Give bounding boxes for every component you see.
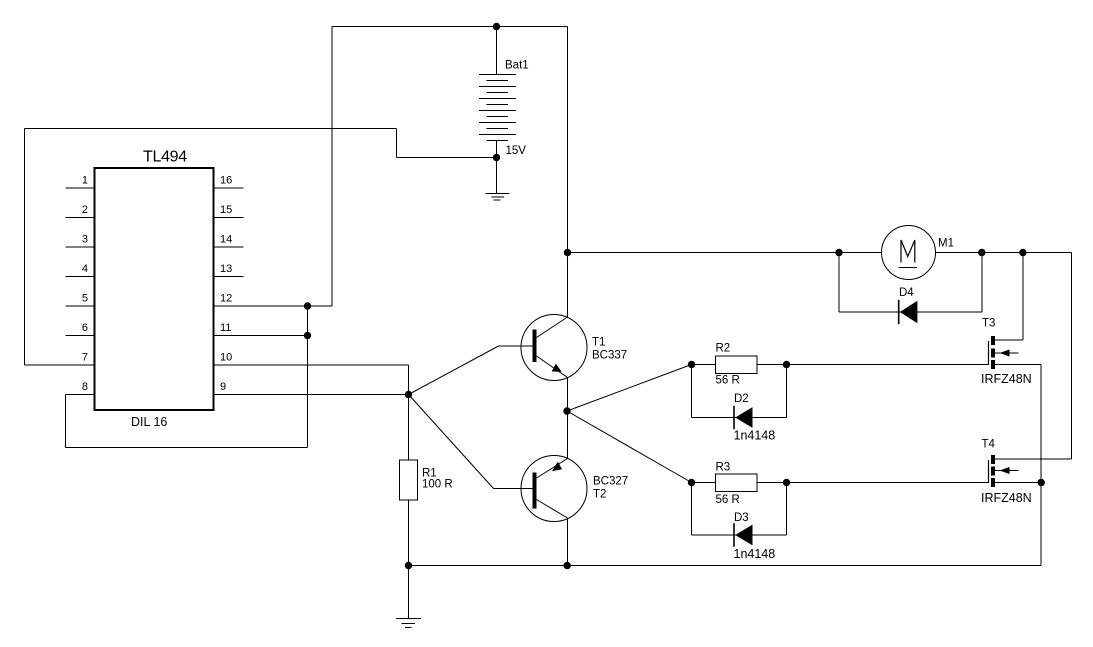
wire T4 source to ground bus: [1040, 483, 1042, 566]
wire R3 right to T4 gate: [757, 482, 989, 484]
svg-text:14: 14: [220, 234, 232, 246]
wire pin9 net: [214, 394, 409, 396]
wire motor right: [936, 252, 1072, 254]
wire R3 left: [692, 482, 716, 484]
wire T3 source drop: [1040, 365, 1042, 483]
wire pin10 drop: [408, 365, 410, 395]
node T2 collector ground junction: [564, 562, 571, 569]
diode D4: [899, 300, 918, 324]
wire pin8 stub: [66, 394, 95, 396]
svg-text:2: 2: [82, 204, 88, 216]
svg-text:IRFZ48N: IRFZ48N: [981, 372, 1032, 386]
svg-text:15: 15: [220, 204, 232, 216]
svg-text:10: 10: [220, 352, 232, 364]
node R2 right junction: [783, 361, 790, 368]
svg-text:D2: D2: [734, 393, 749, 405]
wire battery to ground: [496, 158, 498, 194]
pin 4 stub: [66, 276, 95, 278]
wire T4 source: [995, 482, 1041, 484]
wire ground bus: [409, 565, 1042, 567]
node D4 left junction: [835, 249, 842, 256]
svg-text:BC337: BC337: [592, 350, 627, 362]
svg-text:1: 1: [82, 175, 88, 187]
node base drive junction: [405, 391, 412, 398]
wire D3 net: [692, 534, 787, 536]
wire R1 top: [408, 395, 410, 461]
wire T3 drain stub: [995, 339, 1023, 341]
ground battery: [486, 194, 510, 201]
wire to T2 base diagonal: [409, 395, 494, 489]
wire to R2 net diagonal: [567, 365, 692, 412]
svg-text:16: 16: [220, 175, 232, 187]
wire right drop to T4 drain: [1071, 253, 1073, 460]
pin 3 stub: [66, 246, 95, 248]
wire bottom link: [66, 447, 308, 449]
node R2 left junction: [688, 361, 695, 368]
pin 1 stub: [66, 187, 95, 189]
node 15V junction: [493, 154, 500, 161]
resistor R1: [400, 460, 418, 500]
svg-text:R3: R3: [716, 462, 731, 474]
wire to R3 net diagonal: [567, 411, 692, 483]
wire left riser: [24, 129, 26, 366]
resistor R2: [716, 356, 758, 374]
wire pin7 to left riser: [25, 364, 95, 366]
svg-text:1n4148: 1n4148: [734, 547, 776, 561]
wire R1 bottom: [408, 501, 410, 566]
wire D2 left drop: [691, 365, 693, 418]
wire D4 right riser: [981, 253, 983, 313]
op-amp U1 TL494 body: [95, 168, 214, 410]
node R3 left junction: [688, 479, 695, 486]
pin 5 stub: [66, 305, 95, 307]
wire D4 left drop: [838, 253, 840, 313]
wire pin11 net: [214, 335, 308, 337]
battery Bat1 plates: [479, 75, 516, 141]
svg-text:M1: M1: [938, 238, 954, 250]
battery Bat1 top stub: [496, 27, 498, 75]
pin 15 stub: [214, 217, 244, 219]
wire T4 drain: [995, 458, 1072, 460]
pin 6 stub: [66, 335, 95, 337]
wire motor left: [568, 252, 882, 254]
node R1 ground junction: [405, 562, 412, 569]
wire T3 drain riser: [1022, 253, 1024, 341]
wire top-left bus: [25, 128, 397, 130]
svg-text:IRFZ48N: IRFZ48N: [981, 491, 1032, 505]
svg-text:D4: D4: [899, 287, 914, 299]
svg-text:T4: T4: [982, 439, 996, 451]
pin 13 stub: [214, 276, 244, 278]
node D4 right junction: [978, 249, 985, 256]
pin 2 stub: [66, 217, 95, 219]
svg-text:Bat1: Bat1: [505, 60, 529, 72]
svg-text:D3: D3: [734, 512, 749, 524]
svg-text:7: 7: [82, 352, 88, 364]
svg-text:3: 3: [82, 234, 88, 246]
battery Bat1 bottom stub: [496, 141, 498, 158]
svg-text:T1: T1: [592, 337, 605, 349]
wire bus x307: [307, 306, 309, 448]
wire pin12 riser: [331, 27, 333, 307]
node emitter junction: [563, 407, 570, 414]
svg-text:TL494: TL494: [143, 149, 187, 166]
svg-text:4: 4: [82, 263, 88, 275]
svg-text:56 R: 56 R: [716, 375, 740, 387]
svg-text:56 R: 56 R: [716, 494, 740, 506]
wire T1 base stub: [499, 345, 533, 347]
svg-text:BC327: BC327: [593, 476, 628, 488]
svg-text:13: 13: [220, 263, 232, 275]
transistor T1 BC337: [521, 315, 587, 381]
diode D3: [734, 523, 753, 547]
wire D2 right riser: [786, 365, 788, 418]
svg-text:6: 6: [82, 322, 88, 334]
wire pin12 net: [214, 305, 333, 307]
svg-text:9: 9: [220, 381, 226, 393]
wire to T1 base diagonal: [409, 346, 499, 395]
node collector-motor junction: [564, 249, 571, 256]
pin 16 stub: [214, 187, 244, 189]
diode D2: [734, 406, 753, 430]
wire to battery minus: [397, 157, 497, 159]
wire drop to 15V node: [396, 129, 398, 158]
wire emitter bus: [567, 378, 569, 459]
wire D3 left drop: [691, 483, 693, 536]
wire D3 right riser: [786, 483, 788, 536]
node T3 drain junction: [1019, 249, 1026, 256]
wire pin10 net: [214, 364, 409, 366]
svg-text:T2: T2: [593, 489, 606, 501]
wire R1 to ground: [408, 566, 410, 619]
wire T2 collector: [567, 518, 569, 566]
node pin11 junction: [304, 332, 311, 339]
wire D2 net: [692, 417, 787, 419]
motor M1: [882, 226, 936, 280]
svg-text:100 R: 100 R: [422, 479, 453, 491]
wire T1 collector bus: [567, 27, 569, 318]
svg-text:T3: T3: [982, 318, 995, 330]
transistor T3 IRFZ48N: [989, 336, 1019, 369]
pin 14 stub: [214, 246, 244, 248]
node pin12 junction: [304, 302, 311, 309]
transistor T4 IRFZ48N: [989, 455, 1019, 487]
resistor R3: [716, 474, 758, 492]
wire R2 left: [692, 364, 716, 366]
node R3 right junction: [783, 479, 790, 486]
wire top supply bus: [332, 26, 568, 28]
wire R2 right to T3 gate: [757, 364, 989, 366]
ground R1: [396, 619, 421, 628]
svg-text:R2: R2: [716, 343, 731, 355]
wire pin8 drop: [65, 395, 67, 448]
svg-text:1n4148: 1n4148: [734, 429, 776, 443]
svg-text:5: 5: [82, 293, 88, 305]
wire D4 net: [839, 311, 982, 313]
wire T2 base stub: [494, 488, 533, 490]
svg-text:DIL 16: DIL 16: [131, 415, 167, 429]
svg-text:12: 12: [220, 293, 232, 305]
transistor T2 BC327: [521, 456, 587, 522]
node battery plus junction: [493, 23, 500, 30]
svg-text:15V: 15V: [506, 145, 527, 157]
svg-text:11: 11: [220, 322, 231, 334]
wire T3 source: [995, 364, 1041, 366]
svg-text:8: 8: [82, 381, 88, 393]
node T3-T4 source junction: [1038, 479, 1045, 486]
